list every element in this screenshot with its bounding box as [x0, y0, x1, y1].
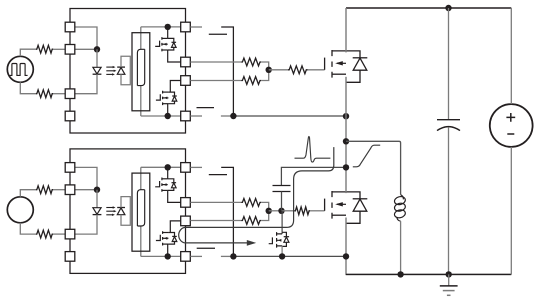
wire U1 Vee to switch node — [221, 115, 234, 117]
waveform gate-ramp annotation — [353, 145, 380, 167]
U2 junction internal Vee node — [165, 253, 171, 259]
U1 hysteresis symbol — [137, 49, 144, 85]
transistor Q2 gate electrode — [324, 199, 326, 211]
transistor Q1 gate electrode — [324, 58, 326, 70]
junction bus capacitor / ground node — [446, 271, 452, 277]
inductor L1 — [401, 195, 404, 200]
transistor Q2 channel — [331, 191, 333, 219]
capacitor C1 plate (U1 Vcc bypass) — [209, 33, 227, 35]
U1 internal Vcc rail (pin 8 row) — [141, 26, 181, 28]
U1 photodiode connection bracket — [121, 56, 130, 85]
junction U1 Vee at switch node — [343, 113, 349, 119]
wire Q2 source to bottom rail — [346, 218, 511, 275]
wire bus capacitor to bottom rail — [448, 127, 450, 274]
wire VDC bottom lead — [510, 147, 512, 275]
resistor R3 (V2 upper input) — [36, 186, 54, 194]
U1 wire pin1 to LED anode node — [75, 27, 97, 49]
wire Cgd to gate node B — [281, 192, 283, 211]
U1 wire LED cathode lead to pin3 — [75, 74, 97, 94]
wire R1 to U1 pin2 — [53, 48, 66, 50]
wire R8 to gate node — [261, 202, 269, 210]
U1 pin7 (Vout) — [181, 57, 191, 67]
U1 internal MOSFET b body diode — [172, 95, 177, 97]
U2 pin8 (Vcc) — [181, 163, 191, 173]
U2 pin6 (Vout) — [181, 216, 191, 226]
U2 pin2 (anode) — [65, 185, 75, 195]
VDC plus sign — [506, 113, 515, 122]
wire V1 plus lead — [20, 49, 36, 56]
signal source V2 — [7, 197, 33, 223]
U2 photodiode connection bracket — [121, 197, 130, 226]
junction Q2 source / U2 Vee — [343, 253, 349, 259]
wire V1 minus lead — [20, 82, 36, 93]
U2 internal Vee rail (pin 5 row) — [141, 255, 181, 257]
U1 photodiode — [117, 66, 125, 68]
U2 hysteresis symbol — [137, 190, 144, 226]
wire R6 to gate node — [261, 70, 269, 81]
junction U1 gate node — [266, 67, 272, 73]
voltage source VDC — [490, 104, 533, 147]
VDC minus sign — [507, 133, 514, 135]
transistor Q1 drain lead — [332, 51, 360, 58]
U1 input LED — [93, 67, 101, 74]
resistor R6 (U1 output, lower) — [241, 77, 261, 85]
U1 optical coupling arrows — [106, 66, 113, 68]
resistor R8 (U2 output, upper) — [241, 199, 261, 207]
U2 pin7 (Vout) — [181, 198, 191, 208]
capacitor C4 plate (U2 Vee side) — [197, 247, 215, 249]
diode body diode of Q2 — [353, 198, 368, 200]
wire R9 to gate node — [261, 211, 269, 221]
capacitor C3 plate (U2 Vcc bypass) — [209, 174, 227, 176]
resistor R2 (V1 lower input) — [36, 90, 54, 98]
U2 junction internal Vcc node — [165, 164, 171, 170]
diode body diode of Q1 — [353, 57, 368, 59]
wire C3 to U2 Vee rail — [221, 167, 233, 256]
transistor Q1 source lead — [332, 73, 346, 75]
wire R10 to Q2 gate — [310, 210, 325, 212]
transistor U2 internal output MOSFET a — [155, 181, 159, 187]
junction L1 / bottom rail — [397, 271, 403, 277]
U1 pin8 (Vcc) — [181, 22, 191, 32]
U1 junction internal Vcc node — [165, 24, 171, 30]
wire gate node B down to M3 drain — [281, 211, 283, 234]
transistor Q1 body arrow — [337, 62, 346, 64]
U2 internal MOSFET b body diode — [172, 235, 177, 237]
transistor U1 internal output MOSFET a — [155, 41, 159, 47]
wire R7 to Q1 gate — [308, 69, 325, 71]
resistor R4 (V2 lower input) — [36, 230, 54, 238]
wire node B to R10 — [282, 210, 295, 212]
U2 wire LED cathode lead to pin3 — [75, 215, 97, 235]
U2 pin3 (cathode) — [65, 229, 75, 239]
capacitor C2 plate (U1 Vee side) — [197, 107, 215, 109]
junction M3 source on Vee return — [279, 253, 285, 259]
transistor Q2 body arrow — [337, 203, 346, 205]
U1 wire LED anode lead — [96, 49, 98, 67]
U1 pin5 (Vee) — [181, 111, 191, 121]
wire R5 to gate node — [261, 62, 269, 70]
wire Q1 source to switch node — [345, 77, 347, 193]
wire R4 to U2 pin3 — [53, 233, 66, 235]
wire C1 to Vee rail — [221, 27, 233, 116]
ground — [448, 274, 450, 286]
U2 junction LED anode node — [94, 187, 100, 193]
U2 pin4 (NC) — [65, 252, 75, 262]
junction U2 gate node A — [266, 208, 272, 214]
wire switch node to inductor L1 — [346, 141, 401, 194]
U2 wire pin2 to LED anode node — [75, 189, 97, 191]
waveform spike annotation (dv/dt surge) — [295, 136, 331, 162]
junction C3/U2 Vee — [230, 253, 236, 259]
U1 junction LED anode node — [94, 46, 100, 52]
capacitor C5 (DC bus electrolytic) — [437, 119, 460, 121]
wire Q1 drain to top rail — [345, 8, 347, 52]
U2 wire LED anode lead — [96, 190, 98, 208]
wire VDC top lead — [510, 8, 512, 104]
wire V2 minus lead — [20, 223, 36, 234]
U2 optical coupling arrows — [106, 207, 113, 209]
wire U2 pin5 stub — [190, 255, 202, 257]
wire R3 to U2 pin2 — [53, 189, 66, 191]
wire U2 Vee to Q2 source node — [221, 255, 234, 257]
optocoupler gate-driver U1 package outline — [70, 9, 186, 134]
U2 wire pin1 to LED anode node — [75, 167, 97, 189]
U1 pin4 (NC) — [65, 111, 75, 121]
resistor R7 (Q1 gate resistor) — [288, 66, 308, 74]
U1 junction internal Vee node — [165, 113, 171, 119]
transistor Q1 channel — [331, 50, 333, 78]
U2 internal Vcc rail (pin 8 row) — [141, 166, 181, 168]
resistor R9 (U2 output, lower) — [241, 217, 261, 225]
wire U1 pin7 to R5 — [190, 61, 241, 63]
wire bottom rail (black overdraw) — [346, 273, 511, 275]
resistor R5 (U1 output, upper) — [241, 58, 261, 66]
U1 signal-processing / schmitt-trigger block — [132, 33, 150, 111]
U1 wire pin2 to LED anode node — [75, 48, 97, 50]
U1 internal MOSFET a body diode — [172, 41, 177, 43]
transistor M3 (U2 sink-side output MOSFET) — [269, 237, 273, 243]
square-wave source V1 — [7, 56, 33, 82]
wire V2 plus lead — [20, 190, 36, 197]
junction C1/Vee — [230, 113, 236, 119]
wire U2 pin6 to R9 — [190, 220, 241, 222]
junction switch node / dv-dt tap — [343, 164, 349, 170]
U2 pin5 (Vee) — [181, 252, 191, 262]
wire U1 pin8 stub — [190, 26, 202, 28]
wire R2 to U1 pin3 — [53, 93, 66, 95]
wire U1 pin5 stub — [190, 115, 202, 117]
U2 photodiode — [117, 207, 125, 209]
V1 square-wave symbol — [10, 64, 28, 76]
U2 internal MOSFET a body diode — [172, 182, 177, 184]
U2 input LED — [93, 208, 101, 215]
wire top rail to bus capacitor — [448, 8, 450, 120]
wire U2 pin7 to R8 — [190, 201, 241, 203]
wire gate node A to node B — [269, 210, 282, 212]
wire inductor L1 to bottom rail — [400, 221, 402, 274]
U1 pin3 (cathode) — [65, 89, 75, 99]
junction U2 gate node B (Miller cap tap) — [278, 208, 284, 214]
wire U2 pin8 stub — [190, 166, 202, 168]
junction switch node / inductor tap — [343, 138, 349, 144]
optocoupler gate-driver U2 package outline — [70, 149, 186, 274]
U2 signal-processing / schmitt-trigger block — [132, 173, 150, 251]
wire gate node to R7 — [269, 69, 288, 71]
resistor R10 (Q2 gate resistor) — [295, 207, 311, 215]
U1 pin1 (anode) — [65, 22, 75, 32]
wire switch node to Cgd (drain side) — [281, 167, 346, 185]
transistor U1 internal output MOSFET b — [156, 94, 160, 100]
capacitor Cgd (drain-gate parasitic) — [273, 185, 291, 187]
U2 pin1 (anode) — [65, 163, 75, 173]
transistor U2 internal output MOSFET b — [156, 235, 160, 241]
current path of dv/dt induced gate charge — [179, 147, 334, 243]
wire U1 pin6 to R6 — [190, 80, 241, 82]
U1 internal Vee rail (pin 5 row) — [141, 115, 181, 117]
arrowhead of current path — [247, 240, 256, 246]
M3 body diode — [284, 236, 289, 238]
resistor R1 (V1 upper input) — [36, 45, 54, 53]
transistor Q2 drain lead — [332, 192, 360, 199]
U1 pin2 (anode) — [65, 45, 75, 55]
junction top rail / bus capacitor — [445, 5, 451, 11]
wire DC bus top rail — [346, 7, 511, 9]
wire M3 source to Vee return — [281, 246, 283, 257]
transistor Q2 source lead — [332, 214, 346, 216]
U1 pin6 (Vout) — [181, 76, 191, 86]
